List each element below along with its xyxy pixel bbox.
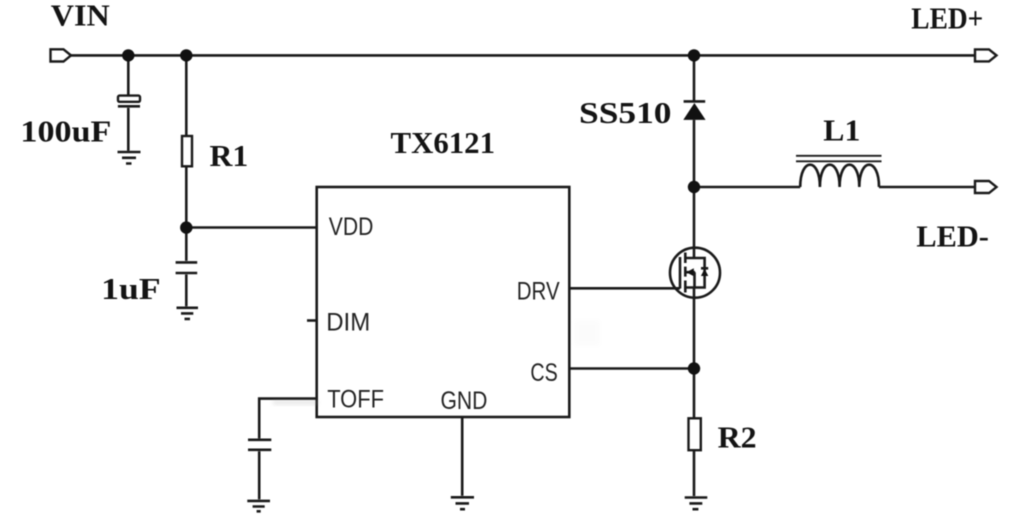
svg-text:L1: L1 (823, 113, 860, 148)
svg-text:1uF: 1uF (101, 271, 161, 306)
svg-text:TOFF: TOFF (327, 386, 384, 414)
svg-text:R2: R2 (718, 419, 757, 454)
svg-text:R1: R1 (210, 138, 249, 173)
svg-text:LED+: LED+ (911, 0, 983, 35)
svg-text:DIM: DIM (326, 308, 370, 336)
svg-text:SS510: SS510 (579, 95, 672, 130)
svg-text:CS: CS (530, 359, 557, 387)
svg-text:100uF: 100uF (20, 114, 111, 149)
svg-text:VDD: VDD (329, 213, 374, 241)
svg-text:TX6121: TX6121 (391, 125, 496, 160)
svg-text:DRV: DRV (517, 278, 560, 306)
svg-text:LED-: LED- (916, 218, 989, 253)
svg-text:VIN: VIN (51, 0, 110, 33)
svg-text:GND: GND (441, 387, 488, 415)
